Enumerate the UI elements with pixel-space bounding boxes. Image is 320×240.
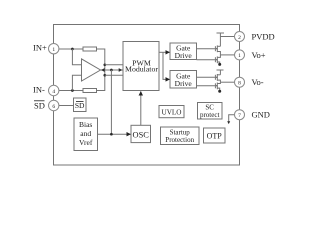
op-amp U1 input amplifier triangle	[82, 59, 101, 81]
junction dot bias wire	[110, 133, 113, 136]
svg-text:Drive: Drive	[175, 79, 193, 88]
PWM modulator block	[123, 42, 159, 91]
startup protection block	[161, 127, 200, 145]
svg-text:4: 4	[52, 89, 55, 95]
transistor Q3 (high side, bridge 2)	[215, 74, 220, 82]
wire gate drive to Q4 gate	[197, 85, 216, 87]
bias and vref block	[74, 118, 98, 151]
svg-text:SD: SD	[34, 101, 45, 111]
transistor Q2 (low side, bridge 1)	[215, 55, 220, 64]
arrowhead pointing right into PWM modulator	[119, 68, 123, 72]
wire gate drive to Q3 gate	[197, 76, 216, 78]
svg-text:7: 7	[238, 113, 241, 119]
svg-text:IN-: IN-	[33, 85, 45, 95]
svg-text:1: 1	[238, 53, 241, 59]
wire branch from node A down to op-amp non-inverting input	[72, 49, 81, 65]
pin 7 GND	[235, 110, 245, 120]
wire bias to oscillator	[98, 133, 131, 135]
UVLO block	[159, 106, 184, 118]
svg-text:Modulator: Modulator	[125, 65, 158, 74]
PVDD rail bar for half-bridge 1	[217, 32, 225, 34]
wire pin6 to SD block	[59, 105, 74, 107]
wire rail down to Q3 drain	[219, 70, 221, 75]
junction dot on output line to oscillator feed	[110, 69, 113, 72]
pin 8 Vo-	[235, 77, 245, 87]
svg-text:Protection: Protection	[165, 136, 194, 144]
svg-text:and: and	[80, 129, 91, 138]
wire rail down to Q1 drain	[219, 33, 221, 46]
pin 1 Vo+	[235, 50, 245, 60]
wire gate drive to Q2 gate	[197, 59, 216, 61]
arrowhead pointing left at op-amp output	[101, 68, 105, 72]
wire OSC up to PWM modulator	[140, 92, 142, 126]
wire bottom differential output to PWM modulator	[105, 74, 123, 76]
resistor R1 (top feedback)	[83, 47, 97, 51]
shutdown SD block	[74, 98, 87, 112]
svg-text:1: 1	[52, 47, 55, 53]
svg-text:2: 2	[238, 35, 241, 41]
vertical tie between differential output lines	[104, 65, 106, 75]
pin 2 PVDD	[235, 32, 245, 42]
svg-text:Bias: Bias	[79, 120, 92, 129]
ground blob bridge 1	[218, 63, 221, 66]
svg-text:Vo+: Vo+	[252, 50, 266, 60]
wire IN+ from pin1 to resistor R1 left	[59, 48, 83, 50]
wire R2 right end to feedback vertical	[97, 75, 105, 90]
svg-text:Vo-: Vo-	[252, 77, 264, 87]
svg-text:protect: protect	[200, 111, 219, 119]
wire vertical split to bottom gate drive	[163, 52, 170, 79]
SC protect block	[198, 103, 223, 120]
wire branch from node B up to op-amp inverting input	[72, 75, 81, 90]
wire op-amp output arrow line to PWM modulator	[101, 69, 123, 71]
wire midpoint bridge2 to Vo- pin	[220, 81, 234, 83]
resistor R2 (bottom feedback)	[83, 89, 97, 93]
svg-text:6: 6	[52, 104, 55, 110]
junction dot bottom output	[103, 74, 106, 77]
wire IN- from pin4 to resistor R2 left	[59, 90, 83, 92]
pin 4 IN-	[49, 85, 59, 95]
ground blob bridge 2	[218, 90, 221, 93]
wire vertical from output line down to bias wire	[110, 70, 112, 134]
PVDD rail bar for half-bridge 2	[217, 69, 224, 71]
wire PVDD pin2 to rail	[220, 36, 234, 38]
svg-text:Drive: Drive	[175, 51, 193, 60]
svg-text:PVDD: PVDD	[252, 32, 275, 42]
pin 1 IN+	[49, 44, 59, 54]
svg-text:Vref: Vref	[79, 138, 93, 147]
wire top differential output to PWM modulator	[105, 64, 123, 66]
svg-text:UVLO: UVLO	[162, 108, 182, 116]
svg-text:SD: SD	[75, 101, 85, 110]
svg-text:OSC: OSC	[133, 130, 150, 139]
gate drive block (bottom)	[170, 71, 197, 89]
chip package outline	[54, 25, 240, 166]
wire PWM to top gate drive	[159, 51, 170, 53]
OTP block	[204, 128, 226, 143]
node A junction dot on IN+ wire	[71, 48, 74, 51]
pin 6 SD	[49, 100, 59, 110]
node B junction dot on IN- wire	[71, 89, 74, 92]
transistor Q4 (low side, bridge 2)	[215, 82, 220, 90]
junction dot top output	[103, 63, 106, 66]
transistor Q1 (high side, bridge 1)	[215, 45, 220, 55]
svg-text:8: 8	[238, 81, 241, 87]
svg-text:OTP: OTP	[207, 132, 223, 141]
wire gate drive to Q1 gate	[197, 48, 216, 50]
wire R1 right end to feedback vertical	[97, 49, 105, 65]
svg-text:GND: GND	[252, 110, 270, 120]
wire midpoint bridge1 to Vo+ pin	[220, 54, 234, 56]
gate drive block (top)	[170, 43, 197, 60]
svg-text:IN+: IN+	[33, 43, 47, 53]
GND internal stub with down arrow	[229, 115, 235, 122]
oscillator OSC block	[131, 125, 151, 142]
